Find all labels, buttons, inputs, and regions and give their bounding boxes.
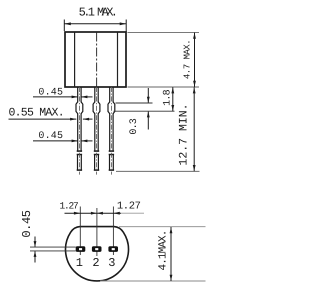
dimension 1.8 dim line: [172, 87, 174, 111]
svg-text:0.3: 0.3: [129, 118, 140, 134]
svg-text:4.7 MAX.: 4.7 MAX.: [182, 40, 192, 79]
body left chamfer line: [74, 33, 76, 87]
arrows 0.55 MAX: [70, 118, 89, 121]
leader 0.55 MAX: [9, 118, 93, 120]
lead 1 (front view): [76, 87, 83, 170]
pin 1 pad: [76, 246, 86, 252]
dimension 4.7 MAX arrows: [193, 33, 196, 87]
svg-text:1.8: 1.8: [163, 89, 174, 105]
extension line lead tips: [116, 170, 200, 172]
leader 0.45 upper: [33, 96, 93, 98]
svg-text:12.7 MIN.: 12.7 MIN.: [177, 103, 190, 165]
lead 3 centerline: [110, 87, 112, 175]
svg-text:1.27: 1.27: [59, 201, 78, 212]
pin 2 pad: [92, 246, 102, 252]
dimension 12.7 MIN dim line: [193, 87, 195, 171]
dimension 0.45 pin arrows: [34, 241, 37, 257]
arrows 0.45 lower: [72, 140, 88, 143]
svg-text:1: 1: [76, 256, 83, 270]
leader 0.45 lower: [33, 140, 93, 142]
svg-text:3: 3: [108, 256, 115, 270]
dimension 4.7 MAX dim line: [194, 33, 196, 87]
dimension 1.27 grey tail: [121, 212, 144, 214]
svg-text:1.27: 1.27: [117, 201, 141, 213]
package outline (bottom view): [66, 227, 129, 281]
pin 3 pad: [108, 246, 118, 252]
pin 1 extension line: [79, 207, 81, 256]
dimension 5.1 MAX arrows: [64, 22, 126, 25]
lead 1 centerline: [78, 87, 80, 175]
body right chamfer line: [117, 33, 119, 87]
pin 3 extension line: [112, 207, 114, 256]
svg-text:5.1 MAX.: 5.1 MAX.: [79, 6, 116, 20]
extension line bump bottom: [114, 110, 175, 112]
svg-text:0.45: 0.45: [38, 131, 63, 142]
dimension 4.1 MAX arrows: [170, 227, 173, 281]
svg-text:2: 2: [92, 256, 99, 270]
lead 2 (front view): [93, 87, 100, 170]
extension line body top right: [128, 31, 200, 33]
dimension 1.27 dim line: [65, 212, 122, 214]
dimension 5.1 MAX dim line: [64, 23, 126, 25]
arrows 0.45 upper: [72, 96, 88, 99]
body vertical centerline: [96, 33, 98, 87]
extension line circle bottom right: [100, 280, 206, 282]
dimension 12.7 MIN arrows: [193, 87, 196, 171]
dimension 4.1 MAX dim line: [170, 227, 172, 281]
dimension 0.45 pin dim shafts: [34, 237, 36, 263]
extension line flat top right: [119, 226, 206, 228]
extension line body bottom right: [128, 86, 200, 88]
dimension 1.27 arrows: [74, 212, 120, 215]
dimension 0.3 arrows and shafts: [147, 88, 149, 130]
extension line bump top: [116, 102, 153, 104]
dimension 0.45 pin leaders: [30, 247, 76, 251]
lead 2 centerline: [96, 87, 98, 175]
package body outline (front view): [65, 32, 126, 87]
svg-text:0.45: 0.45: [20, 210, 34, 237]
lead 3 (front view): [108, 87, 115, 170]
pin 2 extension line: [96, 208, 98, 256]
dimension 1.8 arrows: [171, 87, 174, 111]
svg-text:4.1MAX.: 4.1MAX.: [157, 231, 169, 271]
dimension 5.1 MAX extension ticks: [64, 20, 126, 33]
svg-text:0.55 MAX.: 0.55 MAX.: [9, 107, 64, 120]
